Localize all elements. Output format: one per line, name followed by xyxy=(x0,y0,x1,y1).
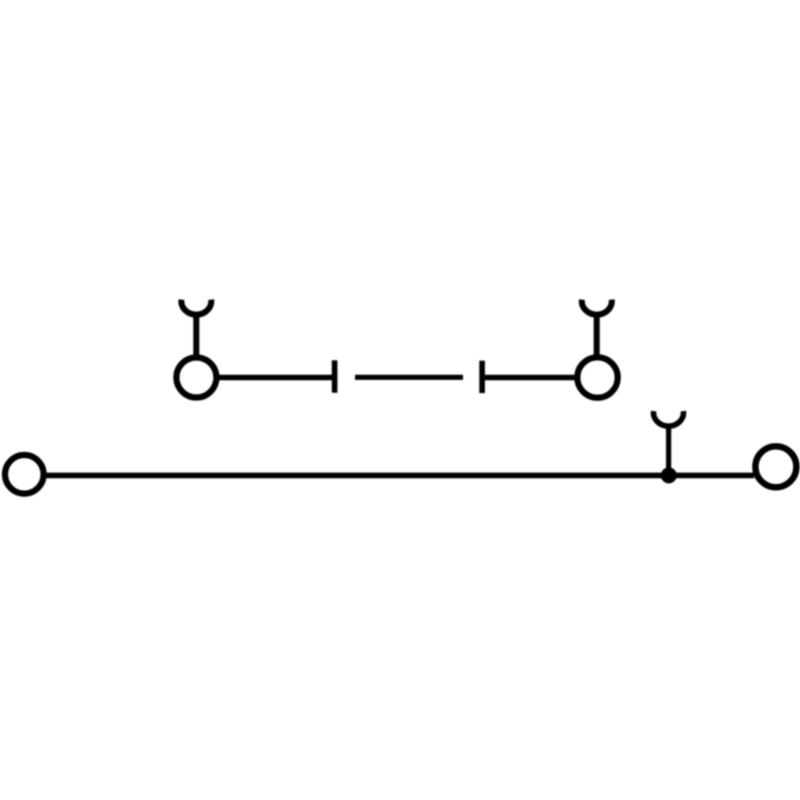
disconnect link right tick xyxy=(479,361,485,393)
test socket arc (top-right terminal) xyxy=(582,300,612,315)
terminal contact circle (bottom-right) xyxy=(755,446,796,487)
terminal contact circle (top-right) xyxy=(577,357,617,397)
terminal contact circle (top-left) xyxy=(176,358,216,398)
test socket arc (bottom tap) xyxy=(654,411,684,426)
test socket stem (top-left terminal) xyxy=(193,313,199,358)
test socket stem (bottom tap) xyxy=(666,424,671,470)
terminal contact circle (bottom-left) xyxy=(5,455,44,494)
disconnect link bar xyxy=(355,375,463,380)
disconnect link left tick xyxy=(332,360,338,392)
test socket arc (top-left terminal) xyxy=(181,300,211,315)
wire: bottom feed-through rail xyxy=(30,473,754,479)
wire: disconnect link to top-right contact xyxy=(485,375,594,381)
test socket stem (top-right terminal) xyxy=(594,313,600,358)
junction dot xyxy=(661,467,677,483)
wire: top-left contact to disconnect link xyxy=(200,375,332,381)
